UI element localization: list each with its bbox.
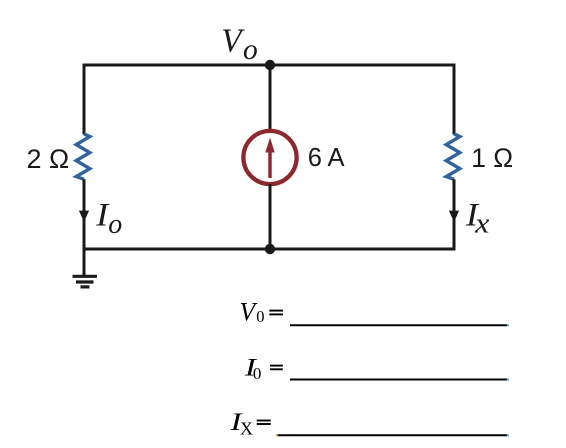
wire: right branch upper segment <box>453 64 456 135</box>
current source arrow (up) <box>265 138 274 179</box>
svg-text:1 Ω: 1 Ω <box>471 143 513 173</box>
current arrow Io (down) on left branch <box>79 211 89 222</box>
svg-text:0: 0 <box>256 307 264 326</box>
svg-text:x: x <box>474 208 489 240</box>
svg-text:2 Ω: 2 Ω <box>27 144 70 174</box>
answer label I0 = <box>244 352 283 383</box>
junction dot top middle node Vo <box>265 60 275 70</box>
answer blank line 1 <box>290 324 509 326</box>
current source I1 circle <box>243 131 296 184</box>
answer label V0 = <box>240 298 284 327</box>
resistor R1 2 ohm (blue zigzag) <box>76 134 90 179</box>
ground stem wire <box>83 249 86 276</box>
wire: middle branch upper segment <box>269 65 272 131</box>
svg-text:o: o <box>243 34 258 66</box>
value label 2 ohm <box>27 144 70 174</box>
current arrow Ix (down) on right branch <box>449 211 459 222</box>
ground bar 1 <box>73 275 98 278</box>
wire: left branch lower segment <box>83 179 86 250</box>
wire: top horizontal net Vo <box>84 64 454 67</box>
wire: middle branch lower segment <box>269 184 272 249</box>
svg-text:X: X <box>240 419 253 439</box>
node label Vo <box>221 22 257 65</box>
ground bar 3 <box>81 285 90 288</box>
value label 6 A <box>308 144 345 172</box>
label Io <box>95 197 122 239</box>
wire: left branch upper segment <box>83 64 86 135</box>
answer label IX = <box>229 407 271 439</box>
svg-text:0: 0 <box>253 364 262 383</box>
wire: right branch lower segment <box>453 179 456 250</box>
resistor R2 1 ohm (blue zigzag) <box>446 134 460 179</box>
wire: bottom horizontal net <box>84 248 454 251</box>
label Ix <box>465 197 490 239</box>
ground bar 2 <box>76 280 94 283</box>
answer blank line 3 <box>276 434 509 436</box>
junction dot bottom middle <box>265 244 275 254</box>
svg-text:6 A: 6 A <box>308 144 345 172</box>
value label 1 ohm <box>471 143 513 173</box>
svg-text:o: o <box>108 209 122 240</box>
answer blank line 2 <box>290 378 509 380</box>
